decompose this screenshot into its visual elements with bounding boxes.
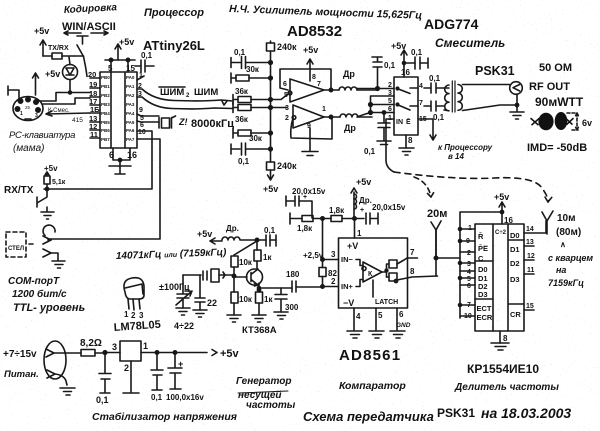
svg-text:PA4: PA4 [126, 111, 135, 116]
svg-text:+5v: +5v [119, 37, 134, 47]
power +5V out [212, 348, 240, 360]
svg-text:8: 8 [503, 334, 508, 343]
svg-text:+7÷15v: +7÷15v [3, 349, 37, 360]
svg-text:3: 3 [467, 261, 471, 268]
svg-text:PB3: PB3 [101, 102, 110, 107]
svg-text:AD8561: AD8561 [339, 347, 401, 364]
label IMD [527, 142, 587, 154]
pin stub right 1 [137, 72, 144, 80]
svg-text:36к: 36к [235, 115, 249, 124]
wire sig bottom to mixer [357, 111, 394, 117]
svg-text:+5v: +5v [44, 164, 58, 173]
svg-text:5: 5 [467, 276, 471, 283]
resistor 1k emitter [256, 283, 274, 315]
label IN- [341, 255, 363, 266]
svg-text:+5v: +5v [197, 229, 212, 239]
resistor 240k top [267, 41, 298, 52]
label Кодировка [64, 2, 118, 16]
svg-text:+5v: +5v [494, 192, 509, 202]
svg-text:1: 1 [322, 106, 326, 113]
transistor TO92 drawing [124, 278, 144, 320]
svg-text:Др.: Др. [359, 196, 372, 205]
resistor 1.8k a [297, 216, 323, 234]
feedback loop U2b [291, 115, 333, 139]
label 50 ОМ [539, 62, 572, 74]
label 4-22 [174, 321, 194, 331]
svg-text:240к: 240к [277, 42, 297, 52]
label osc freq [116, 247, 228, 262]
ground mixer [399, 148, 414, 155]
svg-text:К Смес.: К Смес. [48, 108, 70, 114]
svg-text:+5v: +5v [303, 45, 318, 55]
svg-text:(80м): (80м) [556, 227, 581, 238]
resistor 30k bottom [233, 128, 271, 143]
svg-text:ТХ/RX: ТХ/RX [48, 45, 69, 52]
svg-text:0,1: 0,1 [364, 147, 376, 156]
inductor L2 [324, 114, 372, 133]
output stage [382, 258, 407, 283]
wire switch node [74, 56, 87, 77]
diode LED [63, 57, 78, 94]
svg-text:1: 1 [468, 225, 472, 232]
resistor 10k top [231, 256, 253, 275]
power +5V divider [494, 192, 509, 212]
svg-text:PA0: PA0 [126, 75, 135, 80]
svg-text:RX/TX: RX/TX [4, 185, 34, 196]
svg-text:20,0х15v: 20,0х15v [292, 187, 326, 196]
power +5V opamp [303, 45, 318, 81]
IC U3 ADG774 body [394, 66, 418, 135]
svg-text:PSK31: PSK31 [475, 64, 515, 78]
resistor 8.2 [65, 338, 105, 356]
svg-text:7: 7 [467, 302, 471, 309]
svg-text:+5v: +5v [34, 26, 49, 36]
svg-text:6: 6 [283, 81, 287, 88]
svg-text:LATCH: LATCH [375, 299, 398, 306]
ground trimmer [176, 308, 190, 315]
svg-text:30к: 30к [249, 134, 263, 143]
svg-text:PB6: PB6 [101, 128, 110, 133]
label PC keyboard [9, 130, 75, 141]
label ШИМ [159, 87, 227, 105]
resistor 82 [319, 260, 337, 287]
wire RXTX to pin [44, 131, 152, 189]
svg-text:К: К [368, 271, 373, 278]
svg-text:6: 6 [109, 150, 114, 160]
svg-text:4: 4 [356, 312, 361, 321]
label RF OUT [529, 81, 570, 93]
ground 1k [252, 315, 266, 322]
wire crossover b [369, 103, 394, 113]
label RX/TX [4, 185, 34, 196]
svg-text:0,1: 0,1 [384, 61, 396, 70]
svg-text:8: 8 [312, 74, 316, 81]
label ADG774 [424, 16, 479, 32]
svg-text:8,2Ω: 8,2Ω [80, 338, 102, 349]
wire bias down [322, 219, 324, 260]
capacitor 0,1 osc [255, 226, 276, 246]
capacitor 0,1 ATtiny [135, 51, 154, 72]
svg-text:к Процессору: к Процессору [438, 143, 493, 152]
svg-text:12: 12 [527, 253, 535, 260]
wire IN line down [386, 119, 394, 172]
wire COM to pin [48, 139, 160, 239]
label LM78L05 [113, 319, 161, 334]
label mama [13, 143, 45, 154]
svg-text:Процессор: Процессор [144, 7, 204, 19]
svg-text:WIN/ASCII: WIN/ASCII [62, 21, 116, 33]
power +5V comp [351, 177, 371, 218]
svg-text:СТЕЛ: СТЕЛ [8, 246, 24, 252]
pin numbers left [88, 70, 100, 139]
pin numbers mixer left [388, 82, 392, 122]
divider right labels [510, 231, 521, 319]
transistor Q1 [234, 269, 263, 286]
label Процессор [144, 7, 204, 19]
wire COM tx [48, 239, 51, 241]
node base [232, 274, 235, 277]
pin2 ground [123, 361, 139, 393]
svg-text:AD8532: AD8532 [287, 23, 342, 40]
label IN E mixer [396, 118, 411, 126]
svg-text:3: 3 [138, 91, 142, 98]
ground COM [51, 253, 65, 268]
pin labels right PA [126, 75, 135, 142]
svg-text:300: 300 [285, 303, 299, 312]
wire kbd data [43, 98, 90, 104]
svg-text:TTL- уровень: TTL- уровень [13, 302, 85, 314]
svg-text:9: 9 [466, 238, 470, 245]
svg-text:Ē: Ē [406, 118, 411, 126]
svg-text:0,1: 0,1 [433, 113, 445, 122]
connector COM dashed box [6, 232, 35, 257]
svg-text:1: 1 [124, 310, 129, 319]
wire rf gnd [463, 94, 519, 111]
feedback loop U2a [280, 69, 333, 92]
capacitor 0,1 sig top [372, 57, 396, 88]
capacitor 180 [286, 270, 323, 292]
connector power [44, 341, 67, 385]
pin 8 divider [500, 331, 508, 343]
label Питан [4, 369, 39, 380]
ground power [60, 388, 75, 395]
label 100k [159, 282, 190, 292]
svg-text:3: 3 [139, 311, 144, 320]
svg-text:−V: −V [343, 298, 354, 308]
connector COM pins [43, 225, 55, 257]
svg-text:2: 2 [467, 250, 471, 257]
label IN+ [341, 280, 363, 292]
svg-text:1,8к: 1,8к [297, 224, 313, 233]
svg-text:IMD= -50dB: IMD= -50dB [527, 142, 587, 154]
connector DIN keyboard [13, 97, 43, 121]
label kvarz [548, 240, 593, 288]
svg-text:30к: 30к [246, 65, 260, 74]
svg-text:D0: D0 [510, 231, 520, 240]
label COM port [8, 276, 60, 287]
capacitor 20uF right [353, 203, 406, 224]
svg-text:100,0х16v: 100,0х16v [166, 393, 204, 402]
svg-text:8: 8 [410, 267, 415, 276]
resistor 240k bottom [267, 161, 298, 171]
svg-text:PB1: PB1 [101, 84, 110, 89]
svg-text:9: 9 [139, 107, 143, 114]
svg-text:2: 2 [388, 82, 392, 89]
svg-text:3: 3 [331, 250, 336, 259]
svg-text:4: 4 [467, 269, 471, 276]
capacitor 100uF [166, 351, 204, 402]
svg-text:СОМ-порТ: СОМ-порТ [8, 276, 60, 287]
node in- [321, 250, 339, 261]
svg-text:20м: 20м [427, 208, 447, 220]
svg-text:13: 13 [526, 239, 534, 246]
wire crossover a [371, 96, 395, 105]
resistor 1k collector [254, 240, 272, 268]
pin stubs top 5 15 [108, 60, 135, 73]
svg-text:6: 6 [388, 106, 392, 113]
svg-text:с кварцем: с кварцем [548, 253, 593, 263]
op-amp U2a [283, 74, 324, 102]
resistor 5.1k [44, 176, 66, 189]
svg-text:(мама): (мама) [13, 143, 45, 154]
svg-text:7: 7 [410, 248, 415, 257]
svg-text:IN+: IN+ [341, 282, 354, 291]
svg-text:2: 2 [138, 83, 142, 90]
resistor 10k bottom [231, 276, 253, 315]
divider mid label [495, 230, 507, 236]
label -V [343, 298, 354, 308]
svg-text:3: 3 [112, 342, 117, 352]
svg-text:ADG774: ADG774 [424, 16, 479, 32]
connector RF out [510, 82, 523, 95]
svg-text:ШИМ: ШИМ [194, 87, 218, 98]
svg-text:1: 1 [20, 111, 23, 117]
svg-text:D3: D3 [478, 290, 488, 299]
label 10m 80m [556, 213, 581, 238]
svg-text:ECR: ECR [477, 313, 493, 322]
svg-text:Питан.: Питан. [4, 369, 39, 380]
svg-text:PA7: PA7 [126, 137, 135, 142]
power +5V osc [197, 229, 222, 244]
svg-text:1к: 1к [264, 295, 273, 304]
capacitor 0,1 mixer [403, 48, 429, 69]
svg-text:10м: 10м [557, 213, 576, 224]
svg-text:ATtiny26L: ATtiny26L [143, 38, 205, 53]
svg-text:0,1: 0,1 [141, 51, 153, 60]
svg-text:PA2: PA2 [126, 93, 135, 98]
svg-text:8: 8 [408, 136, 413, 145]
divider left pin stubs [459, 228, 476, 317]
waveform psk [530, 112, 574, 130]
label WIN/ASCII [62, 21, 116, 35]
svg-text:КТ368А: КТ368А [242, 325, 277, 336]
svg-text:PB4: PB4 [101, 111, 110, 116]
antenna 20m [431, 221, 441, 258]
op-amp U2b [285, 105, 326, 130]
svg-text:90мWTT: 90мWTT [535, 95, 584, 109]
svg-text:в 14: в 14 [448, 152, 465, 161]
comparator triangle [362, 262, 382, 282]
power +5V connector [33, 69, 61, 95]
inductor L1 [324, 69, 378, 90]
pin stub mixer 8 [406, 135, 413, 148]
IC U5 comparator body [339, 238, 408, 308]
svg-text:PA6: PA6 [126, 128, 135, 133]
svg-text:6: 6 [140, 122, 144, 129]
svg-text:2: 2 [331, 277, 336, 286]
svg-text:P̄E̅: P̄E̅ [478, 244, 489, 253]
svg-text:PSK31: PSK31 [437, 406, 475, 420]
svg-text:0,1: 0,1 [234, 48, 246, 57]
svg-text:Схема передатчика: Схема передатчика [303, 409, 434, 424]
svg-text:0,1: 0,1 [411, 48, 423, 57]
svg-text:22: 22 [207, 298, 217, 308]
svg-text:5: 5 [378, 311, 383, 320]
svg-text:2: 2 [285, 115, 289, 122]
power +5V mixer [391, 41, 407, 66]
crystal Z1 8000 [137, 114, 234, 130]
svg-text:+: + [303, 194, 307, 201]
svg-text:1к: 1к [263, 253, 272, 262]
pin 7 comp [408, 248, 418, 258]
svg-text:8000кГц: 8000кГц [191, 118, 234, 130]
divider left labels [477, 232, 493, 322]
svg-text:Др: Др [343, 69, 355, 79]
svg-text:Делитель частоты: Делитель частоты [454, 382, 559, 393]
power +5V rxtx [44, 164, 58, 176]
svg-text:PB5: PB5 [101, 120, 110, 125]
ground rxtx [41, 207, 54, 219]
capacitor out2 [424, 101, 445, 122]
svg-text:Др: Др [344, 123, 356, 133]
ground 22 [193, 310, 207, 317]
svg-text:2: 2 [124, 363, 129, 373]
node xtal [233, 275, 235, 277]
mixer switch b [396, 103, 418, 110]
svg-text:4÷22: 4÷22 [174, 321, 194, 331]
power +5V ATtiny [105, 37, 135, 62]
svg-text:Смеситель: Смеситель [435, 36, 505, 50]
wire to mixer [46, 108, 90, 124]
capacitor 0,1 in top [231, 48, 271, 69]
svg-text:1: 1 [143, 341, 148, 351]
svg-text:1: 1 [357, 229, 362, 238]
svg-text:7: 7 [317, 81, 321, 88]
label НЧ усилитель [229, 3, 423, 22]
svg-text:RF OUT: RF OUT [529, 81, 570, 93]
terminal bias in [290, 213, 302, 224]
label TTL [13, 302, 85, 314]
resistor 30k top [231, 65, 271, 83]
svg-text:415: 415 [72, 117, 83, 124]
svg-text:∧: ∧ [560, 240, 566, 249]
ground comp 4 [347, 331, 362, 338]
label KR1554IE10 [467, 362, 539, 376]
power +5V down arrow [263, 170, 278, 194]
dashed branch to 20m [414, 177, 434, 197]
svg-text:Стабілизатор напряжения: Стабілизатор напряжения [92, 411, 237, 423]
label +7-15v [3, 349, 37, 360]
svg-text:15: 15 [526, 303, 534, 310]
svg-text:25: 25 [25, 105, 31, 110]
node in+ [321, 277, 339, 288]
svg-text:10к: 10к [239, 295, 253, 304]
pin 8 comp wire [397, 267, 438, 280]
label Компаратор [339, 380, 406, 392]
svg-text:0,1: 0,1 [96, 395, 109, 405]
pin 5 comp [376, 308, 383, 330]
label KT368A [242, 325, 277, 336]
pin stubs left [90, 78, 100, 138]
svg-text:6: 6 [467, 283, 471, 290]
svg-text:C÷2: C÷2 [495, 230, 507, 236]
svg-text:5: 5 [284, 92, 288, 99]
svg-text:Компаратор: Компаратор [339, 380, 406, 392]
pin numbers right extra [138, 107, 146, 136]
svg-text:5: 5 [108, 64, 113, 73]
IC U6 divider body [475, 224, 524, 331]
svg-text:частоты: частоты [246, 400, 296, 411]
resistor 36k bottom [233, 103, 287, 125]
svg-text:+V: +V [347, 241, 358, 251]
wire latch to processor [418, 119, 493, 161]
svg-text:6v: 6v [582, 118, 592, 128]
svg-text:3: 3 [35, 113, 38, 119]
svg-text:7: 7 [419, 100, 423, 107]
ground 300 [274, 312, 288, 319]
svg-text:3: 3 [285, 105, 289, 112]
svg-text:6: 6 [399, 310, 404, 319]
pin labels left PB [101, 75, 110, 142]
IC body ATtiny [100, 72, 137, 148]
svg-text:0,1: 0,1 [151, 393, 163, 402]
svg-text:14: 14 [526, 226, 534, 233]
svg-text:180: 180 [286, 270, 300, 279]
resistor 36k top [233, 87, 288, 105]
ground divider [491, 343, 509, 350]
capacitor 300 [275, 288, 299, 312]
capacitor 0,1 reg out [151, 351, 163, 402]
svg-text:на: на [556, 265, 566, 275]
ground 10k [227, 315, 241, 322]
wire emitter to cap [258, 287, 293, 290]
svg-text:КР1554ИЕ10: КР1554ИЕ10 [467, 362, 539, 376]
svg-text:+5v: +5v [356, 177, 371, 187]
label title [303, 405, 571, 424]
ground comp 6 [390, 331, 405, 338]
svg-text:36к: 36к [235, 87, 249, 96]
svg-text:на 18.03.2003: на 18.03.2003 [481, 405, 571, 421]
ground ATtiny [109, 158, 131, 174]
svg-text:1,8к: 1,8к [329, 206, 345, 215]
svg-text:16: 16 [127, 150, 137, 160]
label 20m [427, 208, 447, 220]
dashed curve to 10m [394, 172, 552, 202]
divider left pin numbers [464, 225, 472, 320]
pin 4 comp [354, 308, 361, 330]
mixer switch a [396, 87, 418, 93]
label LATCH [373, 280, 398, 306]
pin 1 comp [355, 219, 363, 239]
svg-text:IN−: IN− [341, 255, 354, 264]
wire sig top to mixer [357, 87, 394, 91]
svg-text:R̄: R̄ [478, 232, 484, 241]
svg-text:PC-клавиатура: PC-клавиатура [9, 130, 75, 141]
dimension 6v [567, 113, 592, 130]
label делитель [454, 382, 559, 393]
label PSK31 [475, 64, 515, 78]
label 1200 [12, 288, 67, 300]
